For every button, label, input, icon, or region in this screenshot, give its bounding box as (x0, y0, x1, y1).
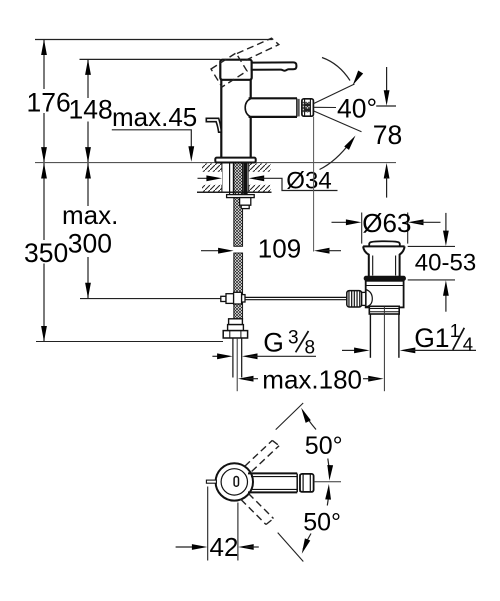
svg-text:8: 8 (305, 338, 316, 359)
deck hatch right (249, 163, 270, 191)
svg-text:Ø63: Ø63 (362, 208, 411, 238)
svg-text:42: 42 (210, 532, 239, 562)
deck hole edges (221, 163, 223, 192)
svg-text:300: 300 (68, 229, 112, 259)
svg-text:176: 176 (27, 88, 71, 118)
svg-text:50°: 50° (303, 508, 341, 536)
svg-text:3: 3 (288, 328, 299, 349)
drain tailpipe (369, 314, 371, 358)
dashed raised handle cap (211, 53, 247, 87)
svg-text:G1: G1 (414, 323, 449, 353)
svg-text:max.45: max.45 (112, 102, 197, 132)
dimension 176 reference line top (35, 39, 272, 41)
base plate escutcheon (215, 158, 255, 163)
drain gasket (black ring) (364, 276, 406, 281)
dimension 78 (376, 105, 396, 107)
dimension 176 arrows (41, 40, 47, 342)
pop-up rod hook lever (206, 118, 221, 132)
deck hatch left (202, 163, 222, 191)
horizontal pop-up rod to drain (245, 296, 347, 298)
drain body (366, 281, 404, 308)
threaded stud (black) (243, 163, 247, 209)
spout top view (248, 472, 297, 474)
50deg lower arc arrow to axis (327, 490, 329, 506)
drain dome cap (369, 241, 400, 246)
svg-text:350: 350 (24, 238, 68, 268)
svg-text:109: 109 (258, 233, 301, 263)
hose G3/8 nut (223, 331, 247, 338)
dimension max.180 (238, 376, 254, 382)
outer body circle (216, 463, 253, 500)
max300 reference line (rod level) (80, 298, 221, 300)
dimension 148/max300 vertical line (87, 59, 89, 298)
svg-text:40-53: 40-53 (415, 249, 476, 276)
spout tip projection line (313, 117, 315, 252)
350 reference line (hose end level) (36, 341, 223, 343)
drain knurled knob (347, 291, 362, 307)
countertop deck bottom line (197, 191, 272, 193)
pop-up pin (206, 480, 216, 483)
50deg lower arc arrow to line (303, 534, 311, 550)
center pill (234, 477, 238, 487)
dimension 42 (207, 487, 209, 561)
svg-text:G: G (263, 328, 284, 358)
G3/8 threaded pipe (232, 338, 234, 378)
drain lower ring (369, 306, 399, 314)
dimension Ø63 (361, 213, 363, 244)
dashed raised lever (237, 38, 279, 61)
pop-up rod tee connector (221, 296, 226, 301)
spout (249, 97, 297, 99)
mounting washer (227, 195, 255, 198)
dimension G3/8 arrows (212, 355, 225, 357)
50deg lower extension line (278, 533, 304, 562)
dashed spout rotated up (245, 440, 279, 471)
50deg upper arc arrow to axis (328, 459, 330, 475)
svg-text:40°: 40° (337, 94, 377, 124)
dashed spout rotated down (241, 494, 274, 525)
svg-text:Ø34: Ø34 (286, 167, 331, 194)
spout shoulder curve (245, 99, 251, 117)
faucet cap (handle base) (220, 60, 251, 80)
dimension 109 (201, 250, 227, 252)
50deg upper extension line (276, 403, 304, 430)
40-degree upper arc arrow (322, 58, 350, 81)
aerator top view (300, 474, 314, 492)
dimension 148 reference line (80, 58, 221, 60)
50deg upper arc arrow to line (303, 411, 316, 430)
threaded shank rod tube (229, 163, 231, 195)
dimension G1 1/4 (342, 349, 356, 351)
faucet body (220, 80, 222, 158)
dimension 40-53 (408, 245, 455, 247)
countertop deck top line (35, 162, 396, 164)
40-degree spray fan lines (314, 84, 355, 104)
mounting nut (240, 198, 251, 206)
svg-text:148: 148 (69, 94, 113, 124)
drain flange (363, 245, 405, 247)
svg-text:4: 4 (463, 334, 473, 355)
dimension 176 vertical line (43, 40, 45, 342)
hose end ferrule (229, 319, 243, 325)
svg-text:max.: max. (62, 200, 118, 230)
svg-text:78: 78 (373, 120, 402, 150)
drain body socket arc (366, 290, 373, 307)
braided hose column lower (234, 253, 243, 319)
dimension 148 arrows (85, 59, 91, 298)
faucet lever handle (252, 62, 297, 70)
dimension Ø34 arrows (198, 177, 216, 179)
white channel for dimension arrows through hatch (201, 172, 222, 185)
svg-text:50°: 50° (305, 432, 343, 460)
aerator (302, 99, 314, 116)
drain centerline (383, 307, 385, 392)
inner body circle (221, 469, 247, 495)
centerline right of aerator (314, 481, 341, 483)
40-degree lower arc arrow (320, 142, 352, 170)
pipe centerline (236, 338, 238, 391)
svg-text:max.180: max.180 (262, 364, 362, 394)
braided hose column upper (234, 163, 243, 247)
